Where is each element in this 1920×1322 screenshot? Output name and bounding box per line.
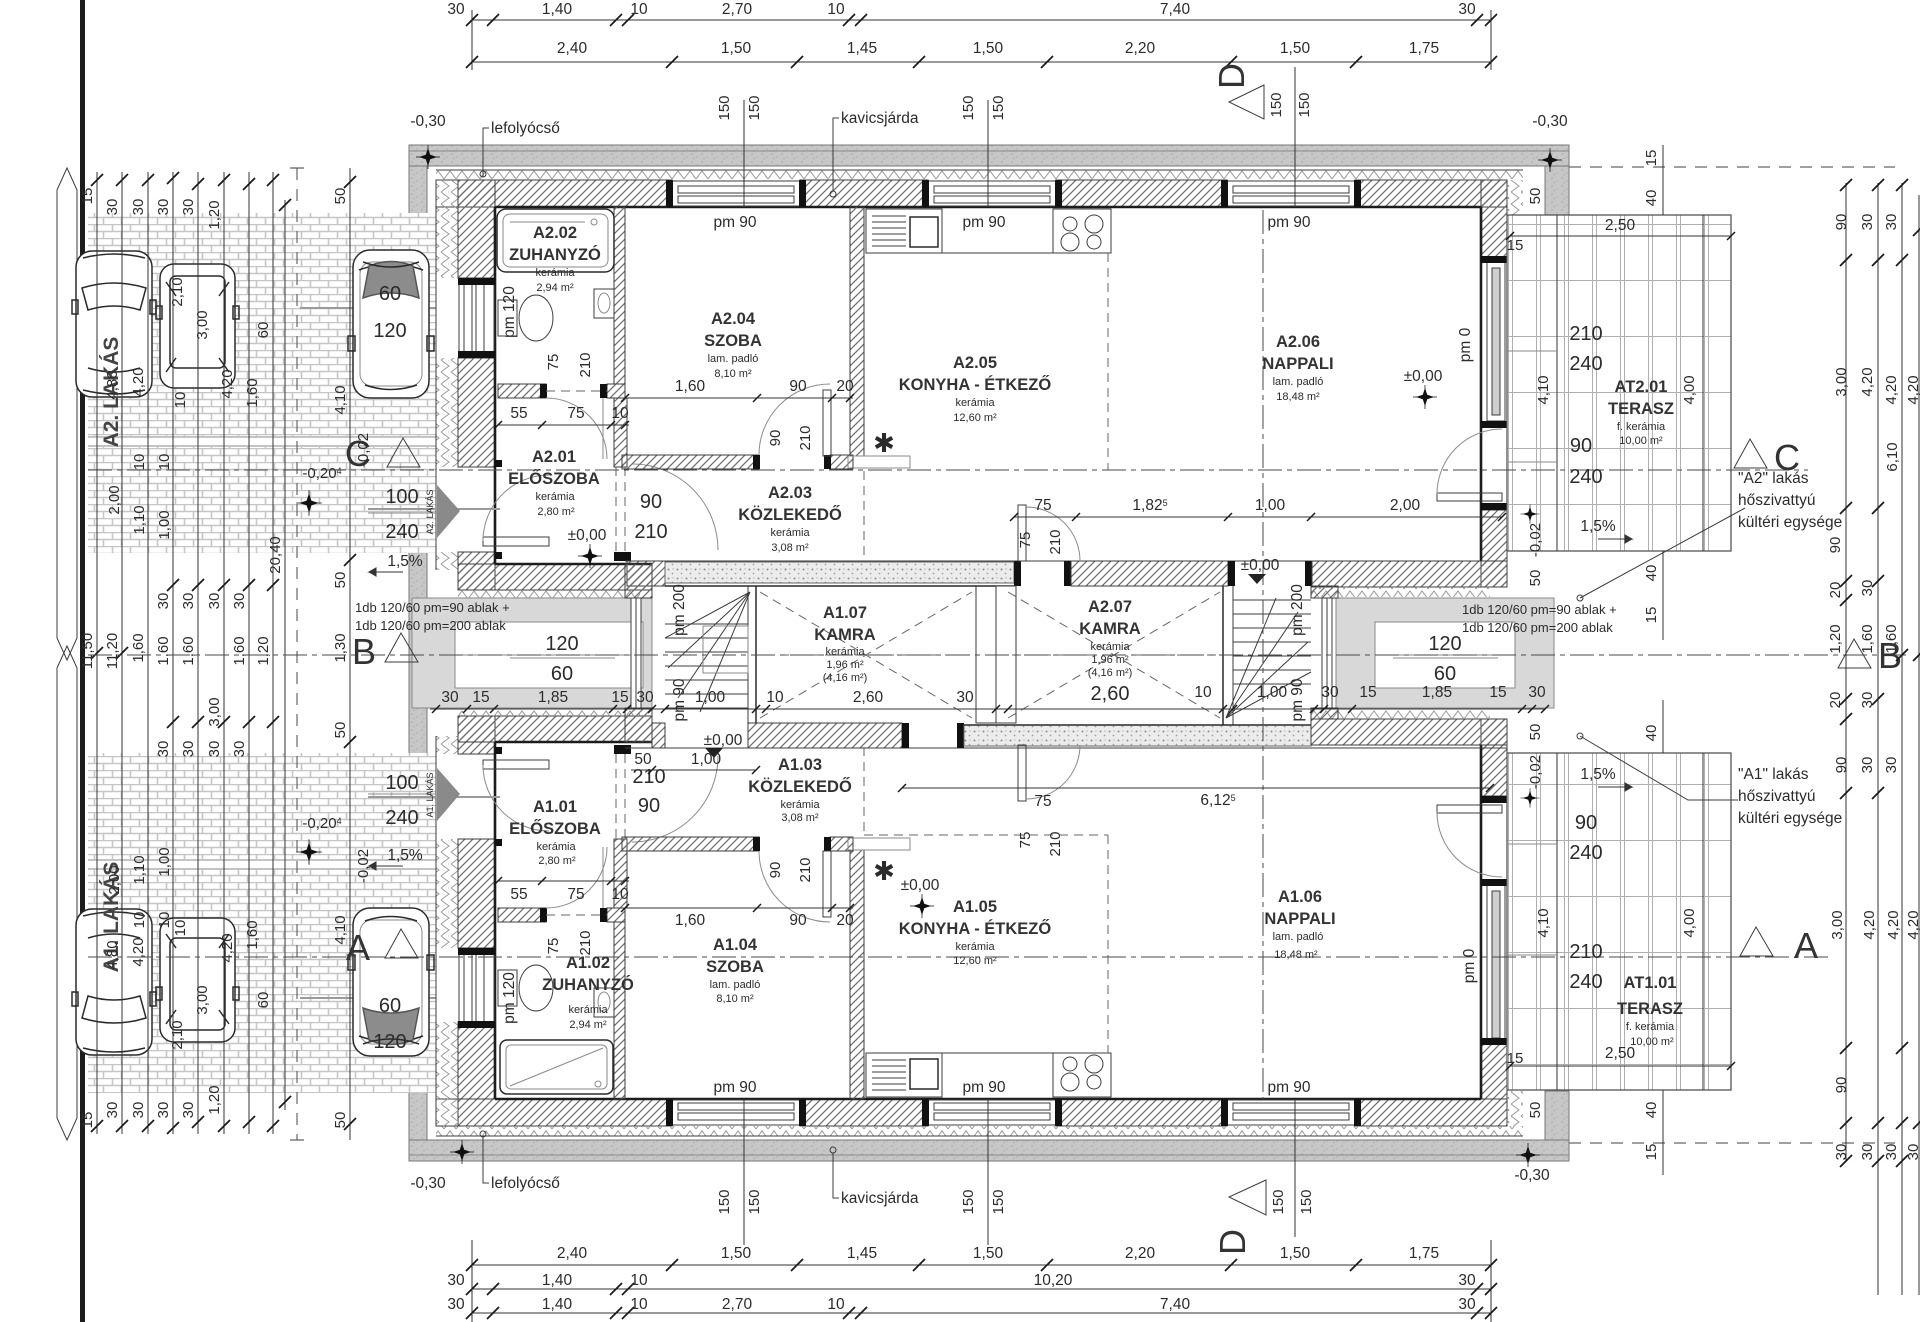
svg-text:2,70: 2,70 [722,1,753,18]
svg-text:8,10 m²: 8,10 m² [714,368,752,380]
kitchen counter A1 [866,1053,1111,1097]
svg-text:1,20: 1,20 [206,200,223,229]
svg-text:f. kerámia: f. kerámia [1626,1021,1675,1033]
svg-text:75: 75 [1034,497,1051,514]
svg-text:50: 50 [332,1112,349,1129]
svg-text:1db 120/60 pm=200 ablak: 1db 120/60 pm=200 ablak [1462,620,1613,635]
svg-text:lam. padló: lam. padló [1273,376,1324,388]
svg-text:30: 30 [180,593,197,610]
svg-text:±0,00: ±0,00 [1404,368,1443,385]
window W2 bottom [922,1099,1062,1126]
svg-text:D: D [1212,1229,1253,1255]
svg-text:2,40: 2,40 [557,40,588,57]
svg-text:A2. LAKÁS: A2. LAKÁS [425,489,435,534]
svg-text:40: 40 [1643,565,1660,582]
right wall insulation top/bottom [1507,180,1523,215]
svg-text:A1.05: A1.05 [953,898,997,916]
svg-text:210: 210 [634,521,667,543]
svg-text:75: 75 [1017,832,1034,849]
svg-text:A1. LAKÁS: A1. LAKÁS [425,772,435,817]
svg-text:240: 240 [1569,466,1602,488]
terrace door A1 leaf and swing [1437,805,1502,813]
A1 stair dashed flight in kamra [760,592,972,718]
svg-text:10: 10 [172,920,189,937]
svg-text:10: 10 [630,1272,648,1289]
svg-text:1,00: 1,00 [156,847,173,876]
basin A2 [594,289,614,318]
svg-text:150: 150 [1270,1189,1287,1214]
svg-text:kerámia: kerámia [955,941,995,953]
svg-text:30: 30 [1458,1,1476,18]
entry opening jambs A1 [495,839,502,846]
svg-text:NAPPALI: NAPPALI [1262,355,1333,373]
B axis [88,654,1908,656]
svg-text:50: 50 [332,572,349,589]
svg-text:10: 10 [131,912,148,929]
svg-text:4,10: 4,10 [1535,908,1552,937]
wc A1 [498,965,553,1011]
svg-text:-0,02: -0,02 [1527,755,1544,789]
svg-text:2,00: 2,00 [106,485,123,514]
svg-text:-0,30: -0,30 [1514,1167,1550,1184]
svg-text:1,10: 1,10 [131,855,148,884]
svg-text:2,10: 2,10 [169,1020,186,1049]
svg-text:1,30: 1,30 [332,633,349,662]
svg-text:4,20: 4,20 [1885,910,1902,939]
svg-text:1,50: 1,50 [1280,1245,1311,1262]
svg-text:-0,02: -0,02 [1527,523,1544,557]
svg-text:pm 90: pm 90 [1267,1079,1310,1096]
svg-text:30: 30 [130,199,147,216]
svg-text:90: 90 [789,912,807,929]
svg-text:B: B [352,631,376,672]
svg-text:1,60: 1,60 [1859,624,1876,653]
svg-text:6,10: 6,10 [1884,442,1901,471]
svg-text:210: 210 [797,425,814,450]
svg-text:"A2" lakás: "A2" lakás [1738,470,1809,487]
A1 entry small dims [631,769,756,771]
terrace AT2.01 [1507,215,1731,551]
bathtub A2.02 [497,209,614,272]
wall A1.02/A1.04 [614,922,625,1099]
svg-text:30: 30 [956,689,974,706]
svg-text:50: 50 [1527,1102,1544,1119]
svg-text:1,85: 1,85 [1422,684,1452,701]
svg-text:4,20: 4,20 [130,367,147,396]
svg-text:kerámia: kerámia [1090,641,1130,653]
svg-text:210: 210 [577,352,594,377]
basin A1 [594,988,614,1017]
svg-text:30: 30 [1458,1296,1476,1313]
svg-text:1,60: 1,60 [244,920,261,949]
50 labels near right wall corners [1527,188,1544,1119]
svg-text:10: 10 [766,689,784,706]
terrace dim lines A2 [1510,215,1731,551]
svg-text:20: 20 [1827,692,1844,709]
svg-text:1,00: 1,00 [695,689,726,706]
right wall masonry pieces [1481,180,1507,1099]
svg-text:1,75: 1,75 [1409,1245,1439,1262]
svg-text:1db 120/60 pm=90 ablak +: 1db 120/60 pm=90 ablak + [1462,602,1617,617]
svg-text:30: 30 [1833,1144,1850,1161]
vertical dimension chain lines [97,168,350,1140]
svg-text:A: A [1794,925,1818,966]
svg-text:1,20: 1,20 [1827,624,1844,653]
svg-text:3,00: 3,00 [194,310,211,339]
svg-text:10: 10 [630,1,648,18]
window axis lines bottom [744,1099,1295,1245]
svg-text:✱: ✱ [873,428,895,458]
A2 front wall left (eloszoba) [458,564,652,590]
kozlekedo door swing [632,464,718,550]
sliding window right A2 (pm0) [1481,256,1507,428]
left bay niche [412,598,652,708]
svg-text:100: 100 [385,772,418,794]
svg-text:2,80 m²: 2,80 m² [537,506,575,518]
svg-text:A1.01: A1.01 [533,798,577,816]
svg-text:150: 150 [746,95,763,120]
svg-text:30: 30 [104,199,121,216]
top gravel walk band [409,145,1569,166]
svg-text:lam. padló: lam. padló [710,979,761,991]
svg-text:1,45: 1,45 [847,40,877,57]
svg-text:30: 30 [1528,684,1546,701]
car C bottom (detailed) [348,908,434,1056]
svg-text:15: 15 [1359,684,1376,701]
svg-text:pm 90: pm 90 [962,1079,1005,1096]
svg-text:±0,00: ±0,00 [1241,557,1280,574]
window W2 top [922,180,1062,207]
svg-text:KONYHA - ÉTKEZŐ: KONYHA - ÉTKEZŐ [899,375,1052,394]
svg-text:4,20: 4,20 [1905,375,1920,404]
svg-text:75: 75 [1017,532,1034,549]
svg-text:1,60: 1,60 [244,378,261,407]
svg-text:1db 120/60 pm=200 ablak: 1db 120/60 pm=200 ablak [355,618,506,633]
svg-text:30: 30 [180,199,197,216]
svg-text:kerámia: kerámia [825,646,865,658]
C right [1734,439,1767,468]
heat pump leader A1 [1580,736,1738,800]
car A top (outline car) [72,251,156,397]
svg-text:75: 75 [545,938,562,955]
svg-text:A1.02: A1.02 [566,954,610,972]
svg-text:lefolyócső: lefolyócső [491,120,560,137]
A2 stair [1226,598,1311,718]
svg-text:1,825: 1,825 [1132,497,1167,514]
svg-text:7,40: 7,40 [1160,1,1191,18]
svg-text:15: 15 [1507,1050,1524,1067]
svg-text:1,20: 1,20 [255,636,272,665]
svg-text:lam. padló: lam. padló [1273,931,1324,943]
svg-text:30: 30 [1883,757,1900,774]
svg-text:15: 15 [1643,150,1660,167]
svg-text:30: 30 [130,1102,147,1119]
svg-text:90: 90 [1827,537,1844,554]
door A2.02 leaf+swing [546,398,607,459]
svg-text:90: 90 [1833,214,1850,231]
svg-text:30: 30 [1859,692,1876,709]
svg-text:30: 30 [1859,1144,1876,1161]
svg-text:pm 90: pm 90 [1267,214,1310,231]
boundary dashes top right [1569,166,1895,168]
svg-text:2,60: 2,60 [1091,683,1130,705]
svg-text:50: 50 [1527,724,1544,741]
window W3 bottom [1221,1099,1361,1126]
svg-text:75: 75 [1034,793,1051,810]
C axis [88,469,1808,471]
heat pump leader A2 [1580,508,1745,598]
svg-text:60: 60 [379,995,401,1017]
svg-text:SZOBA: SZOBA [706,958,764,976]
bottom interior face [495,1098,1481,1101]
svg-text:90: 90 [1570,435,1592,457]
svg-text:210: 210 [1047,529,1064,554]
svg-text:2,20: 2,20 [1125,1245,1156,1262]
svg-text:-0,30: -0,30 [410,113,446,130]
svg-text:30: 30 [1859,214,1876,231]
svg-text:2,94 m²: 2,94 m² [536,282,574,294]
svg-text:pm 120: pm 120 [501,286,518,338]
shower tray A1.02 [500,1040,613,1094]
svg-text:7,40: 7,40 [1160,1296,1191,1313]
svg-text:±0,00: ±0,00 [901,877,940,894]
svg-text:150: 150 [1298,1189,1315,1214]
entry door A1 [483,760,549,769]
svg-text:A1.06: A1.06 [1278,888,1322,906]
svg-text:kerámia: kerámia [955,397,995,409]
svg-text:1,00: 1,00 [156,510,173,539]
svg-text:pm 90: pm 90 [1289,678,1306,721]
svg-text:-0,02: -0,02 [355,433,372,467]
svg-text:kerámia: kerámia [536,841,576,853]
svg-text:-0,30: -0,30 [1532,113,1568,130]
svg-text:A1.04: A1.04 [713,936,758,954]
svg-text:3,00: 3,00 [206,697,223,726]
svg-text:240: 240 [385,521,418,543]
svg-text:150: 150 [960,1189,977,1214]
zuhanyzo bottom wall [498,384,546,398]
kamra door A1 (75) leaf [1018,745,1026,801]
svg-text:ZUHANYZÓ: ZUHANYZÓ [509,245,601,264]
svg-text:kerámia: kerámia [535,491,575,503]
svg-text:1,40: 1,40 [542,1296,573,1313]
svg-text:50: 50 [1527,570,1544,587]
svg-text:150: 150 [716,1189,733,1214]
bottom gravel walk band [409,1140,1569,1161]
svg-text:10,00 m²: 10,00 m² [1630,1036,1674,1048]
svg-text:TERASZ: TERASZ [1608,400,1674,418]
svg-text:NAPPALI: NAPPALI [1264,910,1335,928]
svg-text:30: 30 [447,1296,465,1313]
svg-text:150: 150 [1296,92,1313,117]
svg-text:15: 15 [1507,237,1524,254]
svg-text:A2.07: A2.07 [1088,598,1132,616]
window W3 top [1221,180,1361,207]
svg-text:30: 30 [447,1,465,18]
svg-text:75: 75 [545,354,562,371]
svg-text:pm 0: pm 0 [1461,948,1478,983]
svg-text:30: 30 [104,1102,121,1119]
svg-text:40: 40 [1643,725,1660,742]
svg-text:240: 240 [1569,353,1602,375]
svg-text:120: 120 [373,1031,406,1053]
svg-text:lam. padló: lam. padló [708,353,759,365]
svg-text:60: 60 [1434,663,1456,685]
svg-text:4,20: 4,20 [1861,910,1878,939]
svg-text:1,60: 1,60 [180,636,197,665]
B right [1838,639,1871,668]
svg-text:150: 150 [1268,92,1285,117]
svg-text:4,80: 4,80 [104,940,121,969]
svg-text:1,10: 1,10 [131,505,148,534]
svg-text:30: 30 [155,741,172,758]
svg-text:210: 210 [577,930,594,955]
svg-text:pm 200: pm 200 [671,584,688,636]
top wall masonry segments [458,180,1507,207]
A2.07 kamra walls [1222,586,1224,725]
svg-text:10: 10 [611,405,629,422]
kamra door A2 (75) leaf [1018,505,1026,561]
svg-text:1,5%: 1,5% [387,847,423,864]
svg-text:6,125: 6,125 [1200,792,1235,809]
svg-text:kerámia: kerámia [770,527,810,539]
svg-text:30: 30 [1458,1272,1476,1289]
svg-text:pm 0: pm 0 [1457,327,1474,362]
svg-text:10: 10 [172,392,189,409]
window W1 top [666,180,806,207]
svg-text:±0,00: ±0,00 [704,732,743,749]
wall A1.04/A1.05 [850,850,864,1099]
svg-text:10: 10 [131,454,148,471]
svg-text:±0,00: ±0,00 [568,527,607,544]
svg-text:AT1.01: AT1.01 [1624,974,1677,992]
svg-text:50: 50 [332,722,349,739]
svg-text:pm 90: pm 90 [713,214,756,231]
svg-text:pm 90: pm 90 [713,1079,756,1096]
svg-text:8,10 m²: 8,10 m² [716,993,754,1005]
svg-text:15: 15 [1489,684,1506,701]
svg-text:4,20: 4,20 [130,937,147,966]
svg-text:50: 50 [634,751,652,768]
svg-text:60: 60 [379,283,401,305]
svg-text:A: A [346,927,370,968]
right interior face lines [1480,207,1483,561]
svg-text:15: 15 [79,1112,96,1129]
svg-text:-0,02: -0,02 [355,849,372,883]
svg-text:15: 15 [79,188,96,205]
svg-text:10,00 m²: 10,00 m² [1619,435,1663,447]
terrace corner small dims [1662,145,1664,1175]
svg-text:KÖZLEKEDŐ: KÖZLEKEDŐ [748,777,852,796]
svg-text:150: 150 [990,1189,1007,1214]
svg-text:30: 30 [636,689,654,706]
car C top (detailed car) [348,250,434,398]
svg-text:1,60: 1,60 [155,636,172,665]
svg-text:10: 10 [827,1,845,18]
svg-text:KÖZLEKEDŐ: KÖZLEKEDŐ [738,505,842,524]
svg-text:pm 90: pm 90 [962,214,1005,231]
svg-text:40: 40 [1643,190,1660,207]
right gravel step top [1545,166,1569,215]
A axis [88,956,1830,958]
svg-text:4,20: 4,20 [219,369,236,398]
svg-text:20: 20 [836,378,854,395]
svg-text:1,60: 1,60 [231,636,248,665]
A2 stair dashed flight in kamra [1008,592,1220,718]
car B bottom [156,918,239,1042]
window W1 bottom [666,1099,806,1126]
svg-text:10: 10 [1194,684,1212,701]
rotated chain labels lower [79,847,349,1128]
svg-text:50: 50 [332,188,349,205]
svg-text:30: 30 [1321,684,1339,701]
svg-text:kavicsjárda: kavicsjárda [841,1190,919,1207]
right bay niche [1336,598,1554,708]
szoba door A1 leaf+swing [759,851,830,922]
szoba bottom wall [622,455,759,469]
svg-text:ZUHANYZÓ: ZUHANYZÓ [542,975,634,994]
svg-text:60: 60 [255,322,272,339]
svg-text:A2.05: A2.05 [953,354,997,372]
svg-text:30: 30 [180,741,197,758]
svg-text:SZOBA: SZOBA [704,332,762,350]
terrace AT1.01 [1507,753,1731,1090]
pm labels [713,214,1310,1096]
window left A1 (pm120) [458,948,495,1028]
paving lower parking [88,753,436,1093]
eloszoba/kozlekedo wall [614,398,627,467]
svg-text:1,40: 1,40 [542,1272,573,1289]
svg-text:(4,16 m²): (4,16 m²) [1088,667,1133,679]
svg-text:10: 10 [611,886,629,903]
left bay window [631,598,641,708]
heat pump notes [1738,470,1842,827]
svg-text:240: 240 [1569,842,1602,864]
svg-text:120: 120 [373,320,406,342]
svg-text:lefolyócső: lefolyócső [491,1175,560,1192]
svg-text:1,50: 1,50 [721,40,752,57]
svg-text:10: 10 [827,1296,845,1313]
svg-text:120: 120 [545,633,578,655]
A1 front wall left [458,716,652,742]
A1.07 kamra walls [755,586,757,723]
entry door A2 [483,537,549,546]
svg-text:60: 60 [551,663,573,685]
svg-text:4,80: 4,80 [104,370,121,399]
right gravel step bottom [1545,1091,1569,1140]
svg-text:90: 90 [1833,757,1850,774]
left interior face lines [494,207,497,564]
svg-text:210: 210 [797,857,814,882]
svg-text:✱: ✱ [873,856,895,886]
svg-text:30: 30 [155,1102,172,1119]
svg-text:kültéri egysége: kültéri egysége [1738,810,1842,827]
svg-text:10: 10 [156,454,173,471]
svg-text:150: 150 [716,95,733,120]
svg-text:1,60: 1,60 [130,633,147,662]
svg-text:30: 30 [231,741,248,758]
wall A2.04/A2.05 [850,207,864,456]
svg-text:30: 30 [231,593,248,610]
svg-text:1,5%: 1,5% [1580,766,1616,783]
svg-text:2,40: 2,40 [557,1245,588,1262]
svg-text:18,48 m²: 18,48 m² [1274,949,1318,961]
lefolyocso + kavicsjarda annotations [480,171,486,177]
svg-text:1,40: 1,40 [542,1,573,18]
svg-text:30: 30 [206,593,223,610]
svg-text:90: 90 [1833,1077,1850,1094]
svg-text:120: 120 [1428,633,1461,655]
